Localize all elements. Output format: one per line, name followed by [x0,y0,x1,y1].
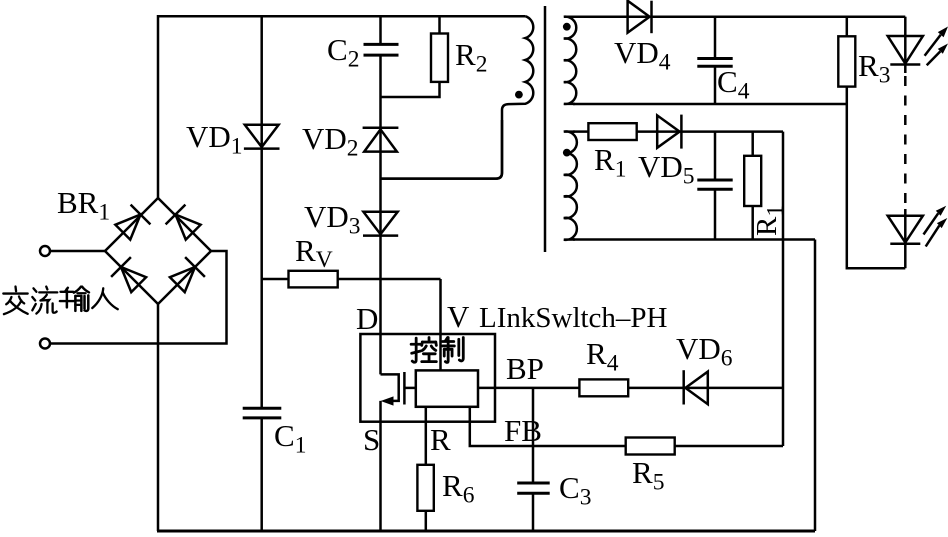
LED D1 [904,17,907,65]
svg-text:LInkSwltch–PH: LInkSwltch–PH [479,302,668,334]
char 流 [32,287,57,314]
svg-text:R5: R5 [632,455,664,496]
svg-text:BP: BP [506,351,544,386]
primary dot [515,91,523,99]
inner control box [416,370,478,406]
bridge BR1 diamond [105,198,211,304]
capacitor C3 [532,388,535,483]
svg-text:C4: C4 [717,64,750,105]
svg-text:R1: R1 [594,142,626,183]
svg-text:C2: C2 [327,32,359,73]
LED2 arrow a [924,213,939,234]
secondary top dot [563,23,571,31]
bias dot [563,149,571,157]
wire bias return to bottom rail [814,240,817,532]
wire left column bottom [157,304,160,531]
resistor R4 [579,379,628,396]
char 入 [92,288,118,309]
wire bottom rail [157,530,815,533]
svg-text:R2: R2 [455,37,487,78]
LED1 arrow a [925,35,941,56]
diode bridge top-right [166,205,203,242]
svg-text:V: V [447,299,470,334]
char 交 [3,287,27,315]
svg-text:VD5: VD5 [638,149,695,190]
AC terminal lower [40,339,50,349]
capacitor C2 [379,16,382,44]
resistor R2 [438,16,441,34]
wire BP [478,387,579,390]
diode VD3 [363,212,397,235]
svg-text:R1: R1 [751,205,789,236]
svg-text:R4: R4 [586,336,619,377]
char 输 [60,287,89,311]
diode VD6 [682,370,685,404]
wire primary bottom to VD2-VD3 node [381,120,503,179]
svg-text:BR1: BR1 [57,185,110,226]
transformer core [544,6,547,252]
resistor R1 [573,130,588,133]
diode VD4 [628,1,650,33]
transformer primary winding [381,16,534,178]
svg-text:VD6: VD6 [676,331,733,372]
label 交流输入 [3,287,117,315]
capacitor C4 [714,17,717,59]
svg-text:R6: R6 [442,468,475,509]
diode VD2 [363,126,399,129]
char 制 [443,338,464,363]
wire bias return [573,238,815,241]
resistor R5 [626,438,675,455]
wire node VD5 to VD6/R5 [782,132,785,446]
resistor RV [262,278,289,281]
wire FB [470,407,626,446]
wire upper AC [50,250,105,253]
svg-text:FB: FB [504,413,542,448]
svg-text:VD1: VD1 [186,119,243,160]
svg-text:C1: C1 [274,418,306,459]
diode bridge bottom-right [167,257,204,294]
transformer bias winding [564,131,577,239]
resistor R1 sense [751,132,754,156]
wire secondary top rail [573,15,905,18]
capacitor bias [714,132,717,180]
wire V pin [439,279,442,370]
label 控制 [411,338,463,363]
resistor R6 [425,407,428,465]
transformer secondary winding top [564,17,576,104]
svg-text:VD2: VD2 [302,121,359,162]
diode bridge top-left [113,205,150,242]
wire lower AC [50,251,227,344]
wire S [379,401,382,531]
svg-text:C3: C3 [559,470,591,511]
capacitor C1 [243,407,282,410]
LED2 arrow b [926,226,940,247]
wire dashed LED string [904,76,907,211]
AC terminal upper [40,246,50,256]
char 控 [411,338,436,363]
svg-text:VD4: VD4 [614,35,671,76]
op IC box LinkSwitch-PH [360,334,495,422]
diode bridge bottom-left [111,257,148,294]
transistor MOSFET inside IC [381,374,399,401]
wire top rail left [158,16,525,198]
svg-text:R3: R3 [858,48,890,89]
LED D2 [904,209,907,244]
svg-text:S: S [363,422,380,457]
wire secondary return [573,103,847,106]
svg-text:R: R [430,422,451,457]
resistor R3 [846,17,849,37]
diode VD5 [657,115,679,147]
svg-text:RV: RV [295,233,333,273]
svg-text:D: D [356,301,378,336]
diode VD1 [260,16,263,125]
LED1 arrow b [927,51,941,65]
